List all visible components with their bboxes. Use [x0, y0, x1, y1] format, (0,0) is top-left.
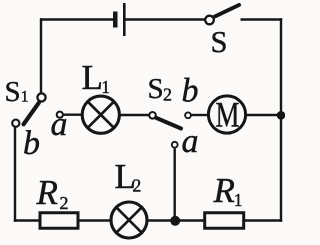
node junction bottom	[170, 216, 180, 226]
lamp L1 cross	[88, 102, 114, 128]
svg-text:a: a	[51, 106, 68, 143]
svg-text:M: M	[216, 95, 240, 135]
svg-text:2: 2	[133, 175, 142, 195]
wire lamp L1 to S2	[120, 114, 149, 116]
switch S2 common circle	[149, 112, 156, 119]
wire left-top vertical	[40, 18, 42, 93]
resistor R2	[40, 213, 78, 229]
resistor R1	[205, 213, 244, 229]
switch S2 contact b circle	[185, 112, 191, 118]
switch S contact circle	[205, 16, 214, 25]
svg-text:2: 2	[163, 85, 172, 105]
svg-text:1: 1	[21, 89, 29, 106]
svg-text:1: 1	[234, 190, 243, 210]
switch S2 blade	[157, 118, 182, 129]
lamp L2 circle	[111, 202, 147, 238]
wire S1 contact a to lamp L1	[64, 113, 82, 115]
wire R2 to lamp L2	[79, 219, 110, 221]
svg-text:S: S	[148, 73, 164, 105]
svg-text:a: a	[182, 123, 199, 160]
svg-text:b: b	[23, 125, 40, 162]
switch S blade	[214, 5, 239, 17]
svg-text:R: R	[36, 173, 58, 212]
wire S2 contact a down to bottom junction	[173, 149, 175, 220]
switch S1 blade	[24, 103, 39, 125]
wire S2 contact b to motor	[192, 114, 208, 116]
lamp L2 cross	[116, 207, 141, 232]
switch S1 contact b circle	[12, 120, 19, 127]
switch S1 contact a circle	[57, 112, 63, 118]
battery negative plate	[113, 12, 118, 28]
svg-text:2: 2	[60, 193, 69, 213]
wire battery to switch S	[126, 18, 206, 20]
svg-text:1: 1	[101, 77, 110, 97]
svg-text:R: R	[213, 171, 235, 210]
wire motor to right rail	[247, 114, 282, 116]
switch S1 common circle	[37, 93, 45, 101]
wire R1 to bottom-right corner	[245, 219, 282, 221]
svg-text:S: S	[5, 76, 21, 108]
svg-text:L: L	[82, 58, 103, 97]
wire bottom-left corner to R2	[14, 219, 39, 221]
wire left-bottom vertical	[14, 128, 16, 222]
wire lamp L2 to junction to R1	[148, 219, 203, 221]
lamp L1 circle	[82, 96, 119, 133]
battery positive plate	[123, 3, 126, 36]
wire top-left horizontal	[40, 18, 114, 20]
node junction motor-right	[277, 111, 286, 120]
wire right vertical	[280, 18, 282, 221]
svg-text:b: b	[182, 73, 199, 110]
svg-text:S: S	[211, 25, 228, 59]
wire switch S to top-right corner	[241, 18, 283, 20]
motor U1 circle	[208, 96, 245, 133]
switch S2 contact a circle	[172, 142, 178, 148]
